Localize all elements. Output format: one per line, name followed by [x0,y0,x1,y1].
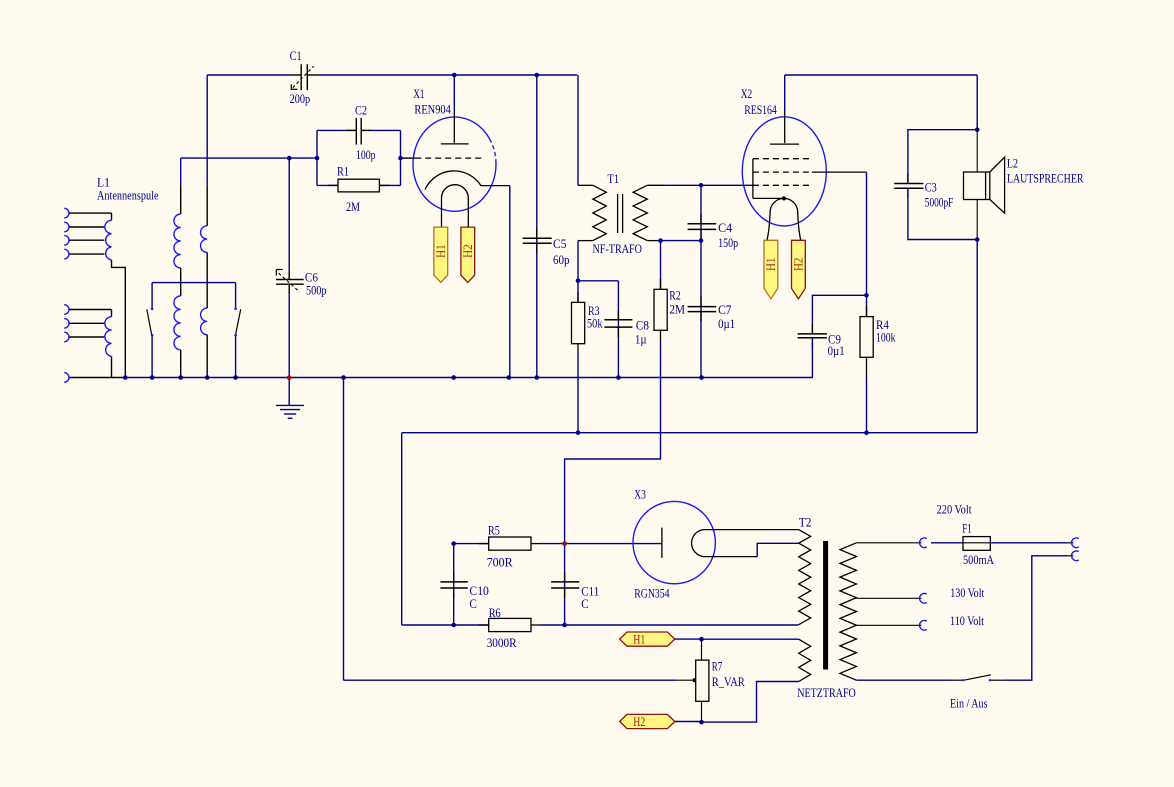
svg-text:60p: 60p [553,253,570,267]
svg-text:100p: 100p [356,148,376,162]
svg-text:RES164: RES164 [744,103,777,117]
svg-text:L2: L2 [1007,157,1018,171]
svg-text:R5: R5 [488,524,500,538]
svg-text:C4: C4 [718,221,733,235]
svg-text:T1: T1 [608,172,620,186]
svg-text:R_VAR: R_VAR [712,675,746,689]
svg-text:X2: X2 [741,87,753,101]
svg-text:NETZTRAFO: NETZTRAFO [797,686,856,700]
svg-text:F1: F1 [962,522,972,536]
svg-text:RGN354: RGN354 [634,586,670,600]
svg-text:H1: H1 [434,244,448,258]
svg-text:200p: 200p [290,92,311,106]
svg-text:LAUTSPRECHER: LAUTSPRECHER [1007,172,1084,186]
svg-text:R7: R7 [712,660,723,674]
svg-text:100k: 100k [876,331,896,345]
svg-text:NF-TRAFO: NF-TRAFO [593,242,643,256]
svg-text:C10: C10 [469,584,489,598]
svg-text:500mA: 500mA [963,553,994,567]
svg-text:C6: C6 [305,271,318,285]
svg-text:C8: C8 [636,319,649,333]
svg-text:C3: C3 [925,181,937,195]
svg-text:150p: 150p [718,236,738,250]
svg-text:700R: 700R [487,556,514,570]
svg-text:C2: C2 [355,104,367,118]
svg-text:C7: C7 [718,303,732,317]
svg-text:L1: L1 [97,176,110,190]
svg-text:C5: C5 [553,237,567,251]
svg-text:X1: X1 [413,87,424,101]
svg-text:REN904: REN904 [414,103,451,117]
svg-text:50k: 50k [587,317,603,331]
svg-text:110 Volt: 110 Volt [950,614,984,628]
svg-text:H2: H2 [461,244,475,258]
svg-text:H2: H2 [633,715,645,729]
svg-text:R2: R2 [669,289,681,303]
svg-text:C1: C1 [290,49,302,63]
svg-text:500p: 500p [306,284,327,298]
svg-text:H1: H1 [764,258,778,272]
svg-text:130 Volt: 130 Volt [950,586,984,600]
svg-text:5000pF: 5000pF [925,196,954,210]
svg-text:H1: H1 [633,633,645,647]
svg-text:T2: T2 [799,516,812,530]
svg-text:R1: R1 [337,165,349,179]
svg-text:1µ: 1µ [635,333,647,347]
svg-text:C: C [581,597,589,611]
svg-text:3000R: 3000R [487,636,518,650]
svg-text:0µ1: 0µ1 [828,344,845,358]
svg-text:X3: X3 [634,488,646,502]
svg-text:2M: 2M [669,302,685,316]
svg-text:2M: 2M [346,200,360,214]
svg-text:R6: R6 [489,606,501,620]
svg-text:C: C [469,597,477,611]
svg-text:H2: H2 [791,258,805,272]
svg-text:Ein / Aus: Ein / Aus [950,697,988,711]
svg-text:220 Volt: 220 Volt [937,503,972,517]
svg-text:Antennenspule: Antennenspule [97,189,159,203]
svg-text:0µ1: 0µ1 [718,317,735,331]
